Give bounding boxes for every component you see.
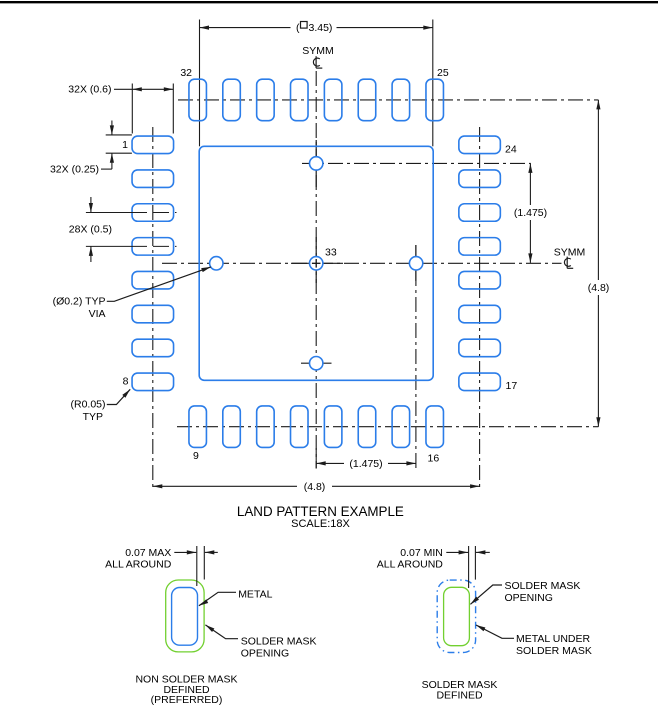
dimension 32X (0.25) extension lines [106,134,132,136]
pad 10 (bottom row) [223,406,241,448]
right detail metal under mask (blue dashed) [437,580,475,652]
svg-text:ALL AROUND: ALL AROUND [377,559,444,571]
centre via cross [291,262,343,264]
dimension 28X (0.5) lower arrow [90,246,92,262]
pad 5 (left column) [132,271,174,289]
svg-text:1: 1 [122,139,128,151]
top via centreline [302,162,531,164]
svg-text:8: 8 [123,376,129,388]
pad 21 (right column) [459,238,501,256]
right detail 0.07 extension lines [468,546,470,588]
pad 28 (top row) [324,79,342,121]
svg-text:33: 33 [325,247,337,259]
svg-text:SYMM: SYMM [302,45,334,57]
left pad column centreline [152,127,154,490]
dimension 32X (0.6) leader [114,88,132,90]
bottom pad row centreline [177,426,598,428]
svg-text:3.45): 3.45) [309,22,333,34]
right detail 0.07 arrows [446,551,468,553]
pad 19 (right column) [459,305,501,323]
svg-text:28X (0.5): 28X (0.5) [69,224,112,236]
svg-text:(PREFERRED): (PREFERRED) [151,694,223,706]
svg-text:(4.8): (4.8) [588,282,610,294]
svg-text:VIA: VIA [89,308,106,320]
corner radius callout leader [107,389,130,404]
pad 9 (bottom row) [189,406,207,448]
svg-text:32X (0.25): 32X (0.25) [50,164,99,176]
svg-text:(Ø0.2) TYP: (Ø0.2) TYP [53,296,106,308]
dimension (sq 3.45) line with arrows [200,27,291,29]
svg-text:OPENING: OPENING [505,592,553,604]
pad 30 (top row) [257,79,275,121]
dimension (4.8) right line [597,100,599,280]
pad 25 (top row) [426,79,444,121]
centre via inner cross [312,262,321,264]
svg-text:(1.475): (1.475) [349,458,382,470]
pad 14 (bottom row) [358,406,376,448]
dimension (1.475) bottom line [316,462,344,464]
dimension 32X (0.6) arrows [132,88,173,90]
pad 22 (right column) [459,204,501,222]
svg-text:ALL AROUND: ALL AROUND [105,559,172,571]
dimension 32X (0.25) lower arrow and leader [111,153,113,169]
dimension 32X (0.6) extension lines [131,84,133,134]
dimension (sq 3.45) extension line left [199,20,201,147]
dimension 28X (0.5) extension lines [86,212,131,214]
dimension (1.475) bottom extension [315,448,317,469]
via right [409,257,422,270]
top pad row centreline [178,99,598,101]
svg-text:TYP: TYP [83,411,103,423]
right detail solder mask opening (green) [444,587,470,645]
via left [210,257,223,270]
pad 18 (right column) [459,339,501,357]
svg-text:SOLDER MASK: SOLDER MASK [505,580,581,592]
svg-text:24: 24 [505,144,517,156]
right via tick [415,245,417,281]
svg-text:(: ( [296,22,300,34]
pad 12 (bottom row) [291,406,309,448]
pad 20 (right column) [459,271,501,289]
pad 24 (right column) [459,136,501,154]
top via tick [315,140,317,187]
svg-text:32X (0.6): 32X (0.6) [68,84,111,96]
svg-text:0.07 MIN: 0.07 MIN [400,547,443,559]
right detail METAL UNDER leader [476,625,514,638]
bottom via tick [301,362,332,364]
dimension 28X (0.5) upper arrow [90,197,92,213]
left detail SOLDER MASK OPENING leader [205,625,238,639]
dimension (sq 3.45) extension line right [432,20,434,147]
pad 4 (left column) [132,238,174,256]
left detail METAL leader [199,592,236,606]
pad 1 (left column) [132,136,174,154]
svg-text:DEFINED: DEFINED [436,690,483,702]
svg-text:(R0.05): (R0.05) [70,399,105,411]
svg-text:9: 9 [193,450,199,462]
pad 2 (left column) [132,170,174,188]
svg-text:17: 17 [506,380,518,392]
pad 15 (bottom row) [392,406,410,448]
thermal pad 33 (centre pad) [199,146,433,380]
via bottom [310,357,323,370]
pad 3 (left column) [132,204,174,222]
horizontal symmetry centreline [162,262,562,264]
pad 31 (top row) [223,79,241,121]
svg-text:25: 25 [437,67,449,79]
vertical symmetry centreline [315,71,317,469]
left detail solder mask opening (green) [166,580,204,652]
pad 27 (top row) [358,79,376,121]
svg-text:0.07 MAX: 0.07 MAX [125,547,171,559]
left detail 0.07 arrows [174,551,196,553]
pad 29 (top row) [291,79,309,121]
svg-text:SOLDER MASK: SOLDER MASK [516,645,592,657]
dimension 32X (0.25) upper arrow [111,121,113,135]
svg-text:METAL UNDER: METAL UNDER [516,633,591,645]
svg-text:OPENING: OPENING [241,648,289,660]
svg-text:SYMM: SYMM [554,247,586,259]
via callout leader [107,267,211,301]
right pad column centreline [479,127,481,490]
pad 26 (top row) [392,79,410,121]
centre line symbol right [564,257,573,269]
pad 23 (right column) [459,170,501,188]
pad 13 (bottom row) [324,406,342,448]
pad 7 (left column) [132,339,174,357]
svg-text:LAND PATTERN EXAMPLE: LAND PATTERN EXAMPLE [237,504,404,519]
svg-text:(1.475): (1.475) [514,207,547,219]
pad 32 (top row) [189,79,207,121]
svg-text:16: 16 [428,453,440,465]
page top border line [0,1,658,3]
pad 11 (bottom row) [257,406,275,448]
svg-text:SOLDER MASK: SOLDER MASK [241,636,317,648]
left detail 0.07 extension lines [196,546,198,586]
svg-text:32: 32 [180,67,192,79]
right via centreline [415,245,417,469]
pad 17 (right column) [459,373,501,391]
svg-text:METAL: METAL [238,589,272,601]
via 33 centre [310,257,323,270]
via top [310,157,323,170]
right detail SOLDER MASK OPENING leader [470,585,502,604]
svg-text:(4.8): (4.8) [304,481,326,493]
centre line symbol top [313,56,322,68]
left detail metal pad (blue) [172,588,198,646]
dimension (1.475) right line [529,163,531,205]
pad 6 (left column) [132,305,174,323]
pad 8 (left column) [132,373,174,391]
dimension (4.8) bottom line [153,485,297,487]
pad 16 (bottom row) [426,406,444,448]
svg-text:SCALE:18X: SCALE:18X [291,518,350,530]
